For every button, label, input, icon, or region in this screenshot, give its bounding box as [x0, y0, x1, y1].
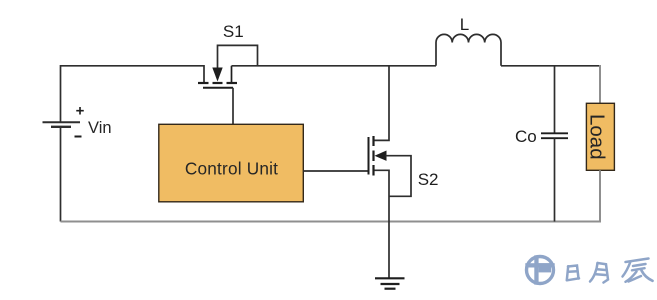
capacitor Co	[541, 133, 568, 138]
wire: S2 drain to top rail	[375, 66, 390, 141]
svg-text:S1: S1	[223, 22, 244, 41]
logo character chen	[623, 259, 653, 282]
wire: S1 to inductor (top rail)	[232, 65, 437, 67]
wire: output corner down to load (gray)	[599, 65, 601, 103]
svg-text:Co: Co	[515, 127, 537, 146]
wire: battery positive to S1 drain	[61, 66, 205, 122]
wire: Co to bottom rail	[554, 138, 556, 221]
wire: output node down to Co	[554, 66, 556, 134]
transistor S2 (N-MOSFET)	[369, 136, 387, 176]
wire: inductor to output corner	[501, 65, 600, 67]
svg-text:Control Unit: Control Unit	[185, 158, 278, 178]
wire: battery negative down to bottom rail	[60, 127, 62, 222]
svg-text:Vin: Vin	[88, 119, 112, 137]
wire: load to bottom rail (gray)	[599, 170, 601, 222]
wire: S2 body loop	[386, 156, 412, 197]
load RL	[586, 103, 614, 170]
ground GND	[375, 278, 405, 288]
svg-text:+: +	[76, 103, 85, 120]
wire: S1 gate to control unit	[232, 88, 234, 125]
inductor L	[436, 34, 501, 65]
wire: S2 source to ground	[375, 170, 390, 278]
logo icon	[525, 255, 554, 284]
battery B1	[43, 122, 81, 127]
wire: bottom ground rail	[61, 221, 601, 223]
logo character ri	[567, 266, 579, 281]
transistor S1 (P-MOSFET)	[198, 66, 237, 88]
label minus	[75, 136, 82, 138]
svg-text:Load: Load	[586, 114, 609, 160]
wire: control unit to S2 gate	[303, 170, 368, 172]
control unit U1	[159, 124, 303, 202]
logo character yue	[590, 263, 608, 283]
svg-text:S2: S2	[418, 170, 439, 189]
svg-text:L: L	[460, 15, 469, 34]
wire: S1 bridge (source to gate loop)	[218, 45, 258, 67]
